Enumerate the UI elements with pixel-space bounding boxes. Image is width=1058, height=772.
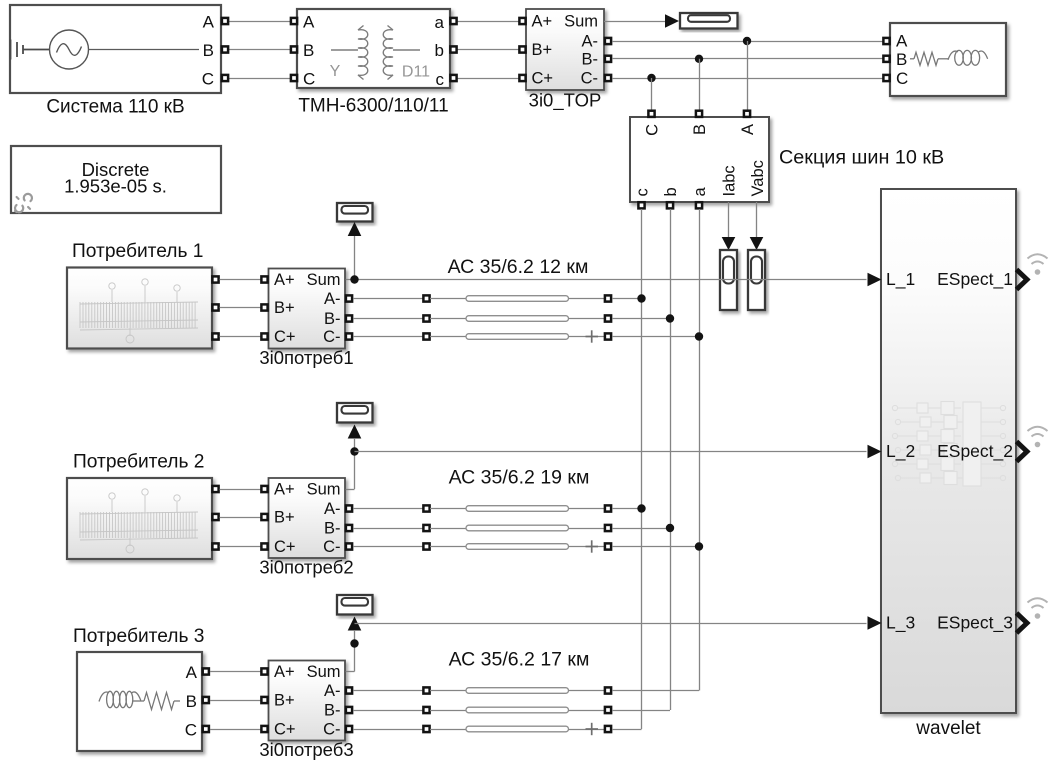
svg-text:L_3: L_3 xyxy=(886,613,915,634)
wire B- to load B xyxy=(612,58,886,60)
svg-text:Sum: Sum xyxy=(307,481,341,499)
wire 3i0potreb2 C- to line xyxy=(353,546,423,548)
consumer 3 inductor symbol xyxy=(99,691,141,707)
three-phase RL load block xyxy=(890,23,1006,96)
line segment wire to body xyxy=(430,546,466,548)
svg-text:3i0потреб2: 3i0потреб2 xyxy=(259,557,353,578)
wires consumer3 to 3i0potreb3 xyxy=(210,671,261,673)
wire line2 B to bus b xyxy=(612,528,670,530)
wires consumer2 to 3i0potreb2 xyxy=(220,489,262,491)
svg-text:L_2: L_2 xyxy=(886,441,915,462)
scope 2 display block xyxy=(337,403,373,423)
line segment left port xyxy=(423,333,429,339)
svg-text:A-: A- xyxy=(324,500,341,518)
wire 3i0potreb2 A- to line xyxy=(353,508,423,510)
wire transformer c to 3i0_TOP C+ xyxy=(458,78,520,80)
source port B xyxy=(222,46,228,52)
block 3i0_TOP xyxy=(526,9,604,90)
junction dot sum3 xyxy=(350,639,358,647)
line segment body xyxy=(466,506,569,512)
wire line1 C to bus a xyxy=(612,336,699,338)
3i0potreb1 left ports xyxy=(261,276,267,282)
junction dot line1B bus b xyxy=(666,314,674,322)
line segment left port xyxy=(423,543,429,549)
svg-text:A+: A+ xyxy=(274,663,295,681)
line segment body xyxy=(466,726,569,732)
svg-text:B: B xyxy=(303,41,314,60)
arrow into Iabc scope xyxy=(722,237,736,250)
svg-text:c: c xyxy=(436,70,445,89)
svg-text:C: C xyxy=(896,69,908,88)
wire line3 C to bus c corner xyxy=(612,729,642,731)
junction dot C wire to bus C xyxy=(647,74,655,82)
line segment wire to body xyxy=(430,729,466,731)
consumer 1 waveform watermark xyxy=(80,279,198,343)
wire Sum2 to wavelet L_2 xyxy=(355,451,867,453)
junction dot line1A bus c xyxy=(637,294,645,302)
svg-text:C+: C+ xyxy=(274,538,296,556)
wire sum3 elbow xyxy=(346,671,355,673)
wavelet input arrow L_1 xyxy=(868,273,882,287)
wire transformer a to 3i0_TOP A+ xyxy=(458,21,520,23)
svg-text:c: c xyxy=(634,188,652,196)
junction dot A wire to bus A xyxy=(743,37,751,45)
svg-text:Vabc: Vabc xyxy=(749,160,767,196)
line segment body xyxy=(466,334,569,340)
line segment right port xyxy=(605,295,611,301)
svg-text:C: C xyxy=(303,70,315,89)
load inductor symbol xyxy=(948,50,988,65)
svg-text:Секция шин 10 кВ: Секция шин 10 кВ xyxy=(779,147,944,169)
svg-text:A+: A+ xyxy=(532,13,553,31)
svg-text:ESpect_1: ESpect_1 xyxy=(937,269,1013,290)
bus top ports xyxy=(648,111,654,117)
svg-text:C-: C- xyxy=(323,538,340,556)
line segment wire to body xyxy=(430,710,466,712)
three-phase source block Sistema 110 kV xyxy=(10,5,221,93)
wavelet output chevron 2 xyxy=(1017,442,1028,462)
line segment wire to right port xyxy=(569,528,605,530)
svg-text:Sum: Sum xyxy=(307,663,341,681)
svg-text:C: C xyxy=(644,124,662,136)
bus column a xyxy=(699,209,701,691)
wavelet watermark filterbank xyxy=(892,402,1005,487)
line segment wire to body xyxy=(430,318,466,320)
wavelet wireless icon 1 xyxy=(1028,254,1048,275)
wavelet input arrow L_2 xyxy=(868,445,882,459)
svg-text:АС 35/6.2 19 км: АС 35/6.2 19 км xyxy=(449,467,590,489)
wire source C to transformer C xyxy=(229,78,291,80)
svg-text:АС 35/6.2 12 км: АС 35/6.2 12 км xyxy=(448,256,589,278)
wire sum2 vertical xyxy=(354,438,356,489)
bus column b xyxy=(670,209,672,710)
svg-text:Sum: Sum xyxy=(307,271,341,289)
svg-text:B: B xyxy=(691,124,709,135)
line segment body xyxy=(466,316,569,322)
wire Iabc to scope xyxy=(728,202,730,238)
wire C- to load C xyxy=(612,78,886,80)
load ports xyxy=(883,38,889,44)
wavelet output chevron 1 xyxy=(1017,270,1028,290)
wavelet subsystem block xyxy=(881,189,1016,713)
line segment left port xyxy=(423,726,429,732)
consumer 3 resistor symbol xyxy=(133,693,180,710)
svg-text:A-: A- xyxy=(582,33,599,51)
line segment left port xyxy=(423,707,429,713)
wire line2 C to bus a xyxy=(612,546,699,548)
svg-text:C: C xyxy=(185,721,197,740)
line segment wire to right port xyxy=(569,336,605,338)
line segment right port xyxy=(605,315,611,321)
Discrete solver info block xyxy=(11,146,221,213)
svg-text:C-: C- xyxy=(323,328,340,346)
wire source B to transformer B xyxy=(229,49,291,51)
plus polarity mark xyxy=(586,330,599,342)
wavelet wireless icon 3 xyxy=(1028,598,1048,619)
svg-text:Потребитель 2: Потребитель 2 xyxy=(73,452,204,473)
line segment body xyxy=(466,544,569,550)
svg-text:A-: A- xyxy=(324,290,341,308)
svg-text:АС 35/6.2 17 км: АС 35/6.2 17 км xyxy=(449,649,590,671)
junction dot line2A bus c xyxy=(637,504,645,512)
svg-text:A: A xyxy=(303,13,315,32)
line segment right port xyxy=(605,543,611,549)
svg-text:3i0_TOP: 3i0_TOP xyxy=(529,90,602,112)
svg-text:A+: A+ xyxy=(274,271,295,289)
plus polarity mark xyxy=(586,723,599,735)
svg-text:A-: A- xyxy=(324,682,341,700)
scope 1 display block xyxy=(337,203,373,222)
wire line2 A to bus c xyxy=(612,508,642,510)
bus column c xyxy=(641,209,643,729)
wire 3i0_TOP Sum to scope xyxy=(604,21,666,23)
arrow up into scope 1 xyxy=(348,222,362,236)
svg-text:C-: C- xyxy=(581,70,598,88)
svg-text:a: a xyxy=(435,13,445,32)
junction dot sum1 xyxy=(350,275,358,283)
svg-text:C+: C+ xyxy=(532,70,554,88)
consumer 3 ports xyxy=(203,668,209,674)
transformer left ports xyxy=(291,18,297,24)
arrow into Vabc scope xyxy=(750,237,764,250)
wavelet input arrow L_3 xyxy=(868,616,882,630)
line segment wire to body xyxy=(430,298,466,300)
wire source A to transformer A xyxy=(229,21,291,23)
wire transformer b to 3i0_TOP B+ xyxy=(458,49,520,51)
transformer right ports xyxy=(450,18,456,24)
line segment left port xyxy=(423,505,429,511)
source port A xyxy=(222,18,228,24)
svg-text:B: B xyxy=(186,692,197,711)
junction dot sum2 xyxy=(350,447,358,455)
wire sum1 branch vertical xyxy=(354,236,356,280)
svg-text:Потребитель 3: Потребитель 3 xyxy=(73,626,204,647)
line segment right port xyxy=(605,707,611,713)
bus section block Sekcia shin 10 kV xyxy=(630,117,769,202)
load resistor symbol xyxy=(910,52,948,65)
svg-text:1.953e-05 s.: 1.953e-05 s. xyxy=(64,176,167,197)
svg-text:3i0потреб3: 3i0потреб3 xyxy=(259,739,353,760)
line segment wire to right port xyxy=(569,710,605,712)
svg-text:A: A xyxy=(739,124,757,135)
svg-text:Sum: Sum xyxy=(564,13,598,31)
3i0potreb2 left ports xyxy=(261,486,267,492)
wire line1 A to bus c xyxy=(612,298,642,300)
wire Sum3 to wavelet L_3 xyxy=(355,623,867,625)
3i0potreb3 left ports xyxy=(261,668,267,674)
source port C xyxy=(222,75,228,81)
wire 3i0potreb1 C- to line xyxy=(353,336,423,338)
line segment wire to body xyxy=(430,336,466,338)
plus polarity mark xyxy=(586,540,599,552)
svg-text:ТМН-6300/110/11: ТМН-6300/110/11 xyxy=(298,96,448,117)
svg-text:B-: B- xyxy=(324,702,341,720)
svg-text:B+: B+ xyxy=(274,299,295,317)
junction dot line1C bus a xyxy=(695,332,703,340)
bus bottom ports xyxy=(638,202,644,208)
svg-text:C-: C- xyxy=(323,721,340,739)
svg-text:C: C xyxy=(202,70,214,89)
wire 3i0potreb3 A- to line xyxy=(353,690,423,692)
arrow into top scope xyxy=(665,14,679,28)
line segment right port xyxy=(605,525,611,531)
line segment right port xyxy=(605,333,611,339)
wire inside source to B xyxy=(89,49,200,51)
transformer block TMN-6300/110/11 xyxy=(297,9,450,88)
bus drop wire B xyxy=(699,59,701,111)
wire 3i0potreb3 C- to line xyxy=(353,729,423,731)
svg-text:ESpect_3: ESpect_3 xyxy=(937,613,1013,634)
svg-text:Iabc: Iabc xyxy=(721,165,739,196)
svg-text:B-: B- xyxy=(324,310,341,328)
svg-text:A: A xyxy=(203,13,215,32)
svg-text:a: a xyxy=(691,187,709,197)
line segment body xyxy=(466,296,569,302)
line segment wire to body xyxy=(430,528,466,530)
svg-text:3i0потреб1: 3i0потреб1 xyxy=(259,347,353,368)
svg-text:A+: A+ xyxy=(274,481,295,499)
bus drop wire A xyxy=(747,41,749,111)
Iabc vertical scope block xyxy=(720,250,737,310)
wire 3i0potreb1 A- to line xyxy=(353,298,423,300)
wavelet output chevron 3 xyxy=(1017,613,1028,633)
svg-text:B: B xyxy=(203,41,214,60)
svg-text:A: A xyxy=(186,663,198,682)
svg-text:B+: B+ xyxy=(532,41,553,59)
svg-text:Y: Y xyxy=(330,63,341,80)
junction dot line2B bus b xyxy=(666,524,674,532)
wire sum2 elbow xyxy=(346,489,355,491)
line segment left port xyxy=(423,315,429,321)
line segment wire to body xyxy=(430,508,466,510)
consumer block Potrebitel 1 xyxy=(67,268,212,349)
line segment left port xyxy=(423,295,429,301)
svg-text:L_1: L_1 xyxy=(886,269,915,290)
svg-text:b: b xyxy=(662,187,680,196)
svg-text:D11: D11 xyxy=(402,64,430,81)
wavelet wireless icon 2 xyxy=(1028,427,1048,448)
block 3i0potreb2 xyxy=(269,478,346,558)
arrow up into scope 2 xyxy=(348,425,362,439)
line segment body xyxy=(466,525,569,531)
3i0potreb1 right ports xyxy=(346,295,352,301)
svg-text:B-: B- xyxy=(582,51,599,69)
wire 3i0potreb3 B- to line xyxy=(353,710,423,712)
line segment left port xyxy=(423,525,429,531)
3i0_TOP left ports xyxy=(519,18,525,24)
consumer block Potrebitel 3 xyxy=(77,652,202,751)
wire line3 A to bus a corner xyxy=(612,690,699,692)
line segment wire to right port xyxy=(569,690,605,692)
wire line1 B to bus b xyxy=(612,318,670,320)
consumer block Potrebitel 2 xyxy=(67,478,212,559)
line segment wire to right port xyxy=(569,546,605,548)
consumer 1 ports xyxy=(212,276,218,282)
svg-text:Потребитель 1: Потребитель 1 xyxy=(72,241,203,262)
3i0potreb3 right ports xyxy=(346,687,352,693)
svg-text:C+: C+ xyxy=(274,328,296,346)
wire 3i0potreb2 B- to line xyxy=(353,528,423,530)
svg-text:B+: B+ xyxy=(274,509,295,527)
wire sum3 vertical xyxy=(354,630,356,672)
wire 3i0potreb1 B- to line xyxy=(353,318,423,320)
3i0potreb2 right ports xyxy=(346,505,352,511)
ground symbol xyxy=(11,40,50,60)
svg-text:C+: C+ xyxy=(274,721,296,739)
svg-text:b: b xyxy=(435,41,444,60)
arrow up into scope 3 xyxy=(348,617,362,631)
line segment body xyxy=(466,707,569,713)
svg-text:ESpect_2: ESpect_2 xyxy=(937,441,1013,462)
line segment body xyxy=(466,688,569,694)
line segment wire to right port xyxy=(569,318,605,320)
bus drop wire C xyxy=(651,78,653,111)
line segment wire to right port xyxy=(569,298,605,300)
consumer 2 ports xyxy=(212,486,218,492)
wire Vabc to scope xyxy=(756,202,758,238)
Vabc vertical scope block xyxy=(748,250,765,310)
consumer 2 waveform watermark xyxy=(80,489,198,553)
svg-text:B+: B+ xyxy=(274,692,295,710)
wire A- to load A xyxy=(612,41,886,43)
junction dot B wire to bus B xyxy=(695,55,703,63)
broken link icon xyxy=(15,194,32,212)
svg-text:B: B xyxy=(896,50,907,69)
line segment right port xyxy=(605,505,611,511)
line segment wire to right port xyxy=(569,729,605,731)
line segment right port xyxy=(605,687,611,693)
block 3i0potreb1 xyxy=(269,269,346,349)
svg-text:B-: B- xyxy=(324,520,341,538)
junction dot line2C bus a xyxy=(695,542,703,550)
wires consumer1 to 3i0potreb1 xyxy=(220,279,262,281)
transformer winding symbol xyxy=(331,26,420,80)
AC voltage source circle xyxy=(50,30,89,69)
top scope display block xyxy=(680,13,738,29)
svg-text:wavelet: wavelet xyxy=(915,718,981,739)
line segment wire to body xyxy=(430,690,466,692)
line segment wire to right port xyxy=(569,508,605,510)
3i0_TOP right ports xyxy=(605,38,611,44)
line segment left port xyxy=(423,687,429,693)
svg-text:A: A xyxy=(896,32,908,51)
wire Sum1 to wavelet L_1 xyxy=(346,279,867,281)
line segment right port xyxy=(605,726,611,732)
svg-text:Система 110 кВ: Система 110 кВ xyxy=(46,97,184,118)
scope 3 display block xyxy=(337,595,373,615)
wire line3 B to bus b corner xyxy=(612,710,670,712)
block 3i0potreb3 xyxy=(269,661,346,741)
